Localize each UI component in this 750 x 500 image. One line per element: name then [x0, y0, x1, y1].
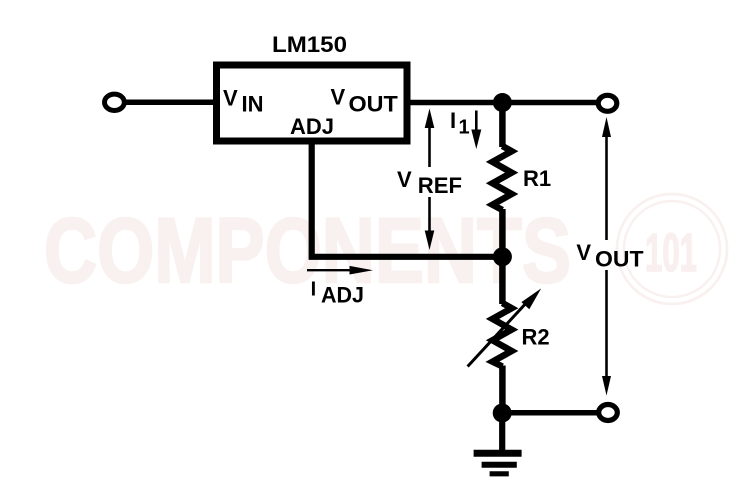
pin label VOUT — [331, 85, 399, 117]
arrow VREF double-headed — [425, 109, 435, 251]
label VREF — [397, 167, 462, 198]
arrow R2 wiper — [468, 288, 542, 366]
output terminal top — [598, 95, 617, 111]
label I1 — [450, 108, 470, 139]
svg-text:1: 1 — [459, 117, 470, 139]
watermark — [44, 194, 727, 304]
node B junction dot — [493, 247, 512, 266]
wire ADJ pin — [312, 141, 503, 257]
svg-text:LM150: LM150 — [272, 32, 347, 57]
svg-text:V: V — [223, 86, 238, 111]
svg-text:R2: R2 — [522, 325, 550, 350]
svg-text:OUT: OUT — [595, 247, 644, 272]
regulator U1 LM150 box — [217, 65, 408, 141]
pin label VIN — [223, 86, 264, 117]
resistor R1 — [493, 103, 512, 258]
svg-text:IN: IN — [242, 92, 264, 117]
label VOUT (output voltage) — [576, 240, 644, 272]
svg-text:OUT: OUT — [349, 91, 399, 116]
wire to bottom output terminal — [502, 410, 598, 416]
label IADJ — [311, 279, 364, 308]
arrow VOUT measurement — [602, 117, 611, 396]
node A junction dot — [493, 93, 512, 112]
svg-text:ADJ: ADJ — [290, 114, 334, 139]
wire input to regulator — [124, 100, 216, 106]
svg-text:V: V — [576, 240, 591, 265]
svg-text:I: I — [450, 108, 456, 133]
ground — [474, 413, 522, 474]
svg-text:R1: R1 — [523, 166, 551, 191]
svg-text:ADJ: ADJ — [321, 283, 364, 308]
svg-text:COMPONENTS: COMPONENTS — [44, 200, 571, 302]
wire VOUT to output terminal — [411, 100, 598, 106]
svg-text:101: 101 — [645, 223, 697, 283]
input terminal — [105, 94, 125, 110]
svg-text:V: V — [331, 85, 346, 110]
arrow IADJ — [307, 266, 373, 275]
arrow I1 — [471, 111, 481, 150]
svg-text:V: V — [397, 167, 412, 192]
output terminal bottom — [599, 405, 618, 421]
svg-text:I: I — [311, 279, 317, 301]
svg-text:REF: REF — [418, 173, 462, 198]
resistor R2 (variable) — [493, 257, 512, 413]
node C junction dot — [493, 404, 512, 423]
